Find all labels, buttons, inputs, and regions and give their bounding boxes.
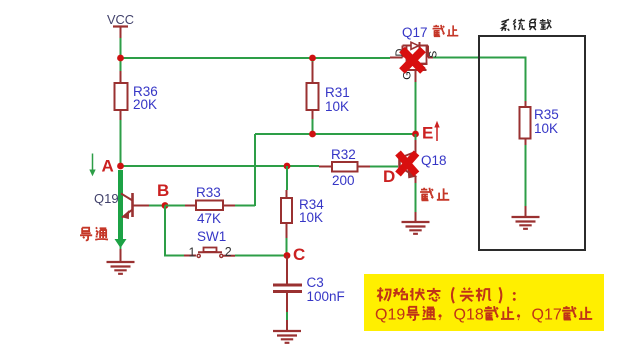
junction dot node B [162,202,169,209]
junction dot VCC rail [117,55,124,62]
svg-text:Q17: Q17 [532,307,562,324]
svg-text:Q19: Q19 [94,191,119,206]
svg-text:E: E [422,124,433,143]
wire R33 right to vertical riser [235,205,255,207]
svg-text:C: C [293,245,305,264]
junction dot node C [284,252,291,259]
svg-text:B: B [157,181,169,200]
junction dot R31 top [309,55,316,62]
capacitor C3 [273,275,345,304]
label conducting (dao tong) [80,227,108,240]
svg-text:200: 200 [332,173,355,188]
svg-text:2: 2 [225,245,232,259]
wire R34 bottom to node C [286,238,288,256]
wire Q17 gate down to node E [415,82,417,134]
svg-text:R31: R31 [325,85,350,100]
power symbol VCC [107,12,134,38]
resistor R33 [185,185,235,226]
svg-text:G: G [402,71,414,80]
annotation line 1: initial state (power off): [377,287,516,303]
highlighted path arrowhead [115,239,127,248]
wire switch to node C [235,255,287,257]
system load box [479,36,585,250]
svg-text:D: D [383,167,395,186]
wire Q19 emitter to ground [120,246,122,249]
svg-text:SW1: SW1 [197,229,226,244]
svg-text:47K: 47K [197,211,221,226]
wire top rail left (VCC junction to Q17 drain) [121,57,391,59]
red X over Q18 [398,153,417,174]
mosfet Q17 [390,25,440,82]
svg-text:Q19: Q19 [375,307,405,324]
svg-text:S: S [428,51,440,58]
wire capacitor to ground [286,293,288,312]
wire node C to capacitor [286,256,288,284]
yellow annotation box [364,274,604,331]
resistor R31 [307,58,350,119]
svg-text:Q18: Q18 [454,307,484,324]
svg-text:Q17: Q17 [402,25,428,40]
junction dot R31 bottom E rail [309,131,316,138]
resistor R34 [281,190,324,238]
junction dot node A [117,163,124,170]
svg-text:10K: 10K [534,121,558,136]
transistor Q19 [94,191,149,218]
wire node B to R33 [165,205,185,207]
highlighted conducting path through Q19 [118,170,123,240]
svg-text:Q18: Q18 [421,153,447,168]
wire node B down to switch [165,206,184,256]
wire R31 bottom to E rail [312,119,314,134]
svg-text:R32: R32 [331,147,356,162]
current arrow at node A [92,154,94,171]
svg-text:1: 1 [189,246,196,260]
resistor R35 [520,101,559,145]
label cutoff Q18 (jie zhi) [420,188,449,201]
wire R35 to ground [525,145,527,206]
ground under Q18 [402,222,430,234]
wire E rail [255,133,415,135]
wire node E to Q18 collector [415,134,417,140]
wire R32 to Q18 base [370,166,398,168]
svg-text:C3: C3 [307,275,324,290]
ground under Q19 [107,262,135,274]
current arrow at node E [436,126,438,141]
resistor R32 [319,147,370,188]
svg-text:10K: 10K [325,99,349,114]
svg-text:A: A [102,157,114,176]
wire vertical x=255 from E rail to R33 [254,134,256,206]
wire VCC to top rail [120,38,122,58]
wire R36 top lead [120,58,122,71]
svg-text:10K: 10K [299,210,323,225]
transistor Q18 [400,152,447,178]
svg-text:VCC: VCC [107,12,134,27]
annotation line 2: Q19 conducts, Q18 cutoff, Q17 cutoff [375,306,592,323]
wire top rail right (Q17 source into load box) [433,58,526,102]
ground inside load box [512,217,540,229]
junction dot A rail R34 [284,163,291,170]
label cutoff Q17 (jie zhi) [433,25,459,36]
svg-text:R35: R35 [534,107,559,122]
wire Q19 base to node B [149,205,165,207]
wire node A rail [121,165,320,167]
red X over Q17 [402,50,423,72]
svg-text:20K: 20K [133,97,157,112]
resistor R36 [115,71,158,120]
wire A rail junction down to R34 [286,166,288,190]
junction dot node E [412,131,419,138]
wire Q18 emitter to ground [415,176,417,183]
switch SW1 [184,229,235,260]
svg-text:100nF: 100nF [307,289,345,304]
wire R36 bottom to node A [120,120,122,166]
ground under C3 [273,331,301,343]
svg-text:R33: R33 [196,185,221,200]
label system load (xi tong fu zai) [501,19,551,31]
